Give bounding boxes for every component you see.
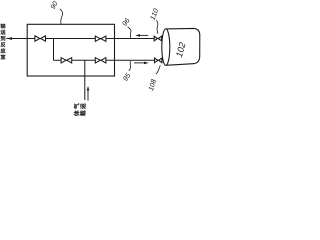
wire: outlet pipe to reaction chamber (top pipe) xyxy=(6,38,161,40)
flow arrow toward tank (below lower pipe) xyxy=(134,62,145,64)
leader for label 110 xyxy=(156,20,158,34)
leader for label 95 xyxy=(129,61,131,71)
node label: to reaction chamber (CJK column) xyxy=(1,23,6,28)
label 90 xyxy=(50,1,58,10)
node label: carrier gas (CJK block) xyxy=(80,103,85,109)
leader for label 96 xyxy=(128,27,131,38)
fitting valve 108 at tank inlet bottom xyxy=(155,58,162,63)
label 110 xyxy=(150,8,159,20)
wire: carrier gas supply pipe (lower pipe) xyxy=(54,59,162,61)
label 102 on tank xyxy=(176,42,186,58)
tank 102 left end cap xyxy=(162,29,170,66)
tank 102 body xyxy=(166,28,200,65)
valve V2 on outlet pipe (right) xyxy=(95,36,106,41)
flow arrow toward chamber (above top pipe) xyxy=(139,34,149,36)
valve V1 on outlet pipe (left) xyxy=(35,36,46,41)
arrowhead to reaction chamber xyxy=(7,37,13,40)
label 95 xyxy=(122,72,130,81)
valve manifold enclosure 90 xyxy=(27,24,114,76)
flow arrow carrier gas up xyxy=(87,90,89,101)
leader for label 90 xyxy=(60,9,63,24)
label 96 xyxy=(122,17,130,26)
valve V3 on supply pipe (left) xyxy=(61,58,72,63)
valve V4 on supply pipe (right) xyxy=(95,58,106,63)
label 108 xyxy=(148,79,156,91)
wire: carrier gas inlet drop pipe xyxy=(84,60,86,100)
wire: bypass vertical drop xyxy=(53,39,55,61)
leader for label 108 xyxy=(156,65,160,74)
fitting valve 110 at tank inlet top xyxy=(154,36,161,41)
